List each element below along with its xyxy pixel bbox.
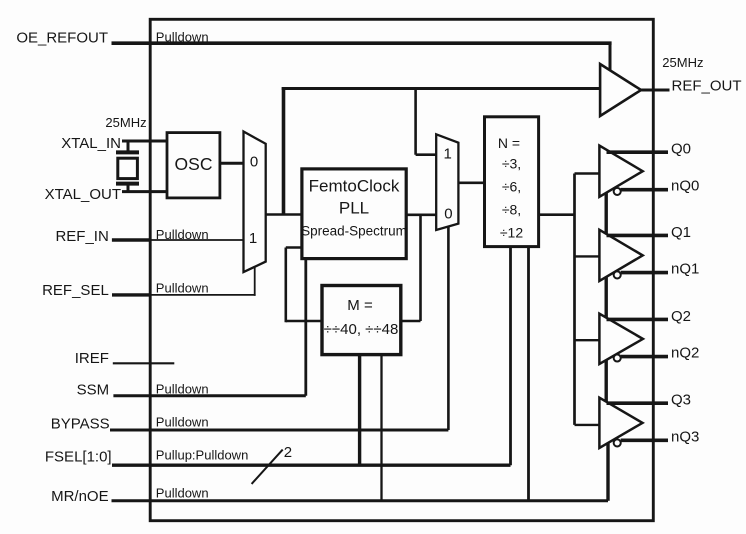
svg-text:2: 2	[284, 444, 292, 461]
pin label Q2	[671, 308, 691, 325]
svg-text:0: 0	[250, 154, 258, 171]
wire REF_SEL	[112, 266, 256, 296]
wire M divider output feedback to PLL	[286, 248, 322, 323]
wire output enable chain Q1-Q2	[605, 276, 608, 321]
svg-text:Spread-Spectrum: Spread-Spectrum	[301, 224, 407, 239]
pulldown annotation OE_REFOUT	[156, 29, 209, 44]
svg-text:nQ2: nQ2	[671, 345, 699, 362]
svg-text:25MHz: 25MHz	[105, 115, 146, 130]
svg-text:FSEL[1:0]: FSEL[1:0]	[45, 449, 112, 466]
wire drop to mux2 input 1	[416, 89, 437, 155]
wire XTAL_OUT stub to crystal	[127, 184, 130, 192]
pin label FSEL[1:0]	[45, 449, 112, 466]
wire XTAL_IN to OSC	[122, 140, 167, 143]
wire REF_IN	[112, 238, 244, 241]
wire FSEL to N divider	[509, 247, 512, 466]
pin label XTAL_IN	[61, 135, 121, 152]
pin label IREF	[75, 350, 109, 367]
svg-text:÷6,: ÷6,	[502, 179, 521, 195]
pin label REF_SEL	[42, 282, 109, 299]
wire riser to top rail	[282, 87, 286, 214]
wire IREF stub	[113, 362, 175, 364]
svg-text:Pulldown: Pulldown	[156, 29, 209, 44]
wire output bus	[573, 174, 576, 425]
pulldown annotation MR/nOE	[156, 485, 209, 500]
svg-text:REF_OUT: REF_OUT	[672, 77, 742, 94]
svg-text:SSM: SSM	[77, 381, 110, 398]
pin label nQ2	[671, 345, 699, 362]
svg-text:Pulldown: Pulldown	[156, 485, 209, 500]
svg-text:REF_SEL: REF_SEL	[42, 282, 109, 299]
annotation 25MHz crystal	[105, 115, 146, 130]
svg-text:Pullup:Pulldown: Pullup:Pulldown	[156, 448, 249, 463]
pulldown annotation BYPASS	[156, 415, 209, 430]
buffer Q0	[575, 146, 669, 197]
pulldown annotation REF_SEL	[156, 281, 209, 296]
wire output enable chain Q2-Q3	[605, 359, 608, 405]
svg-text:0: 0	[444, 206, 452, 223]
pulldown annotation REF_IN	[156, 227, 209, 242]
pin label Q3	[671, 392, 691, 409]
mux U3 bypass select	[436, 134, 458, 230]
svg-text:Pulldown: Pulldown	[156, 281, 209, 296]
wire XTAL_OUT to OSC	[122, 190, 167, 193]
pin label REF_OUT	[672, 77, 742, 94]
PLL block U2	[301, 169, 407, 259]
svg-text:MR/nOE: MR/nOE	[51, 488, 109, 505]
svg-text:IREF: IREF	[75, 350, 109, 367]
wire mux1 output to PLL	[266, 213, 302, 216]
wire SSM	[113, 394, 305, 397]
svg-text:÷12: ÷12	[500, 225, 523, 241]
wire feedback PLL output down to M divider	[401, 215, 421, 321]
wire MR/nOE	[112, 499, 609, 502]
wire N divider output to output bus	[539, 213, 575, 216]
svg-text:÷8,: ÷8,	[502, 202, 521, 218]
wire FSEL to M divider	[358, 355, 361, 466]
svg-text:Q2: Q2	[671, 308, 691, 325]
pin label Q1	[671, 224, 691, 241]
svg-text:XTAL_IN: XTAL_IN	[61, 135, 121, 152]
buffer Q3	[575, 398, 669, 448]
svg-text:OSC: OSC	[175, 154, 213, 174]
buffer Q1	[575, 230, 669, 281]
pin label XTAL_OUT	[45, 186, 121, 203]
chip boundary	[150, 19, 653, 520]
crystal Y1	[116, 152, 139, 183]
svg-text:nQ3: nQ3	[671, 428, 699, 445]
wire OE_REFOUT drop to REF_OUT buffer enable	[609, 43, 612, 73]
wire OE_REFOUT horizontal	[112, 41, 612, 45]
svg-text:Q0: Q0	[671, 141, 691, 158]
buffer REF_OUT	[560, 64, 670, 116]
wire MR to N divider	[527, 247, 530, 501]
oscillator OSC	[167, 133, 220, 198]
pin label nQ3	[671, 428, 699, 445]
svg-text:Pulldown: Pulldown	[156, 381, 209, 396]
svg-text:÷3,: ÷3,	[502, 156, 521, 172]
wire output enable chain Q0-Q1	[605, 192, 608, 237]
svg-text:Q3: Q3	[671, 392, 691, 409]
pin label REF_IN	[55, 228, 108, 245]
svg-text:OE_REFOUT: OE_REFOUT	[16, 29, 108, 46]
divider M	[322, 286, 401, 355]
pin label SSM	[77, 381, 110, 398]
wire PLL output to mux2 input 0	[406, 214, 436, 217]
pin label OE_REFOUT	[16, 29, 108, 46]
svg-text:REF_IN: REF_IN	[55, 228, 108, 245]
svg-text:N =: N =	[498, 135, 520, 151]
svg-text:nQ1: nQ1	[671, 261, 699, 278]
wire OSC output to mux1 input 0	[220, 162, 244, 165]
pin label MR/nOE	[51, 488, 109, 505]
wire BYPASS	[110, 429, 448, 432]
svg-text:Pulldown: Pulldown	[156, 415, 209, 430]
mux U1 reference select	[244, 132, 266, 273]
wire BYPASS riser to mux2 select	[447, 226, 450, 430]
pin label BYPASS	[51, 415, 110, 432]
svg-text:XTAL_OUT: XTAL_OUT	[45, 186, 121, 203]
bus width slash	[252, 444, 293, 484]
svg-text:PLL: PLL	[339, 199, 369, 218]
svg-text:FemtoClock: FemtoClock	[309, 177, 400, 196]
wire FSEL[1:0] bus	[112, 464, 511, 467]
divider N	[485, 117, 539, 247]
svg-text:BYPASS: BYPASS	[51, 415, 110, 432]
wire XTAL_IN stub to crystal	[127, 141, 130, 153]
svg-text:Pulldown: Pulldown	[156, 227, 209, 242]
svg-text:Q1: Q1	[671, 224, 691, 241]
svg-text:M =: M =	[347, 297, 373, 314]
pin label Q0	[671, 141, 691, 158]
buffer Q2	[575, 314, 669, 364]
annotation 25MHz REF_OUT	[662, 55, 703, 70]
wire mux2 output to N divider	[458, 182, 484, 185]
svg-text:1: 1	[444, 146, 452, 163]
pulldown annotation SSM	[156, 381, 209, 396]
wire top rail to REF_OUT buffer	[282, 87, 600, 90]
wire SSM riser to PLL	[304, 259, 307, 396]
svg-text:25MHz: 25MHz	[662, 55, 703, 70]
wire MR to M divider	[380, 355, 382, 501]
svg-text:1: 1	[249, 230, 257, 247]
pullup annotation FSEL	[156, 448, 249, 463]
pin label nQ1	[671, 261, 699, 278]
wire MR riser to output buffers	[606, 444, 609, 501]
svg-text:nQ0: nQ0	[671, 178, 699, 195]
svg-text:÷÷40, ÷÷48: ÷÷40, ÷÷48	[324, 321, 399, 338]
pin label nQ0	[671, 178, 699, 195]
